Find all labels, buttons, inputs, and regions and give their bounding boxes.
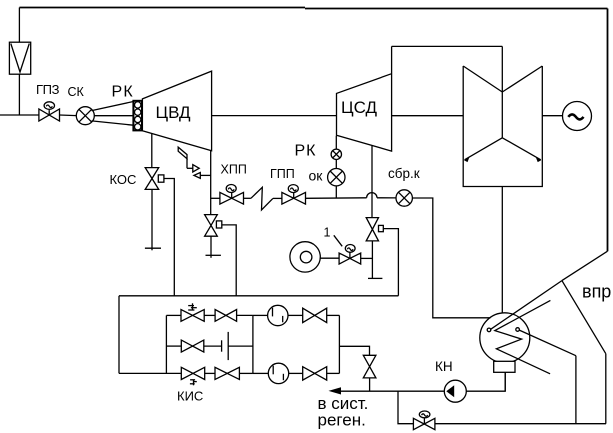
wire: recirculation drop bbox=[398, 391, 413, 424]
wire: below KOS bbox=[151, 189, 153, 250]
wire: boiler to main steam line bbox=[18, 74, 20, 115]
valve row3 second bbox=[215, 367, 239, 379]
wire: below drain valve bbox=[371, 241, 373, 279]
wire: pump to condenser bbox=[466, 372, 505, 391]
valve row2 bbox=[181, 340, 204, 352]
wire: hop to dump valve circle bbox=[377, 197, 396, 199]
turbine HP cylinder TsVD (ЦВД) bbox=[142, 71, 211, 151]
wire: recirculation line to injection risers bbox=[435, 423, 606, 425]
arrow: to regeneration system bbox=[329, 387, 342, 394]
expansion zigzag bbox=[251, 187, 273, 210]
hotwell bbox=[494, 361, 515, 372]
wire: row1 manifold to meter bbox=[253, 314, 268, 316]
orifice (restrictor) row2 bbox=[222, 332, 229, 360]
svg-text:ХПП: ХПП bbox=[221, 163, 247, 177]
wire: SK to RK fan bottom bbox=[92, 121, 134, 125]
label pointer line bbox=[334, 235, 342, 246]
turbine IP cylinder TsSD (ЦСД) bbox=[337, 46, 392, 151]
pump KN (КН) bbox=[444, 380, 466, 402]
svg-text:РК: РК bbox=[295, 143, 317, 160]
wire: SK to RK fan top bbox=[92, 102, 134, 111]
wire: row2 to orifice bbox=[204, 345, 222, 347]
valve 1 bbox=[339, 245, 361, 265]
valve row3 outlet bbox=[303, 367, 327, 380]
wire: hot reheat line to hop bbox=[306, 197, 367, 200]
wire: discharge to condensate line bbox=[369, 378, 371, 391]
wire: GPZ to SK bbox=[60, 114, 77, 117]
wire: TsSD drain vertical bbox=[371, 146, 373, 218]
flow meter row3 bbox=[268, 363, 288, 383]
check valve KOS (КОС) bbox=[145, 168, 164, 190]
wire: injection line to left nozzle bbox=[491, 281, 562, 330]
wire: row3 to mid manifold bbox=[239, 372, 253, 374]
svg-text:ок: ок bbox=[309, 168, 324, 184]
wire: shaft/steam TsVD to TsSD bbox=[212, 115, 337, 117]
svg-text:ГПЗ: ГПЗ bbox=[36, 82, 60, 97]
turbine LP cylinder (double flow) bbox=[463, 66, 542, 187]
wire: gauge to valve 1 bbox=[320, 257, 339, 259]
valve RK of TsSD bbox=[331, 149, 341, 159]
svg-text:1: 1 bbox=[324, 226, 331, 240]
wire: main steam line bbox=[0, 114, 39, 116]
spray nozzle left bbox=[487, 328, 491, 332]
wire: injection line to right nozzle bbox=[519, 330, 576, 356]
ground: KOS drain bbox=[145, 247, 161, 249]
svg-text:ЦСД: ЦСД bbox=[341, 98, 377, 117]
wire: crossover pipe down into LP bbox=[501, 46, 503, 137]
svg-text:КИС: КИС bbox=[177, 389, 203, 404]
wire: top header line left bbox=[19, 7, 305, 9]
wire: row3 manifold to meter bbox=[253, 372, 268, 374]
wire: ROU row3 left feed bbox=[119, 372, 181, 374]
svg-text:СК: СК bbox=[68, 85, 85, 99]
wire: row1 to mid manifold bbox=[237, 314, 253, 316]
wire: crossover pipe top bbox=[392, 45, 503, 47]
wire: ROU mid manifold bbox=[252, 315, 254, 373]
wire: sbr.k to condenser bbox=[412, 198, 490, 318]
wire: valve 1 to drain bbox=[361, 257, 373, 259]
svg-text:ГПП: ГПП bbox=[270, 167, 295, 181]
wire: drain header bbox=[119, 295, 398, 297]
wire: injection riser right bbox=[605, 354, 607, 424]
wire: SK to RK fan middle bbox=[94, 115, 133, 117]
wire: shaft LP to generator bbox=[542, 115, 562, 117]
wire: row1 to right manifold bbox=[327, 314, 340, 316]
wire: branch to KhPP valve bbox=[211, 197, 220, 199]
wire: row1 mid bbox=[204, 314, 215, 316]
wire: header left drop bbox=[118, 296, 120, 374]
wire: meter to valve row1 bbox=[288, 314, 303, 316]
wire: orifice to mid manifold bbox=[228, 345, 253, 347]
wire: row3 to right manifold bbox=[327, 372, 340, 374]
wire: dump zigzag through condenser bbox=[495, 300, 551, 373]
discharge valve (hourglass) bbox=[363, 355, 376, 378]
valve row1 second bbox=[215, 310, 237, 322]
dump valve sbr.k (сбр.к) bbox=[396, 190, 412, 206]
boiler bbox=[9, 42, 30, 74]
wire: shaft TsSD to LP bbox=[392, 115, 464, 117]
control valve block RK (РК) bbox=[133, 101, 142, 131]
wire: meter to valve row3 bbox=[289, 372, 303, 374]
valve KhPP (ХПП) bbox=[220, 185, 244, 205]
svg-text:реген.: реген. bbox=[318, 411, 366, 430]
wire: row1 left bbox=[166, 314, 181, 316]
wire: boiler riser bbox=[18, 8, 20, 43]
svg-text:РК: РК bbox=[112, 84, 134, 101]
wire: check valve bypass to drain header bbox=[222, 225, 236, 296]
ground: reheat drain bbox=[206, 254, 221, 256]
valve SK (СК) stop valve bbox=[76, 107, 94, 125]
valve row3 impulse KIS (КИС) bbox=[181, 367, 204, 385]
spray nozzle right bbox=[516, 328, 520, 332]
wire: OK down to reheat line bbox=[335, 186, 337, 198]
wire: KOS drop from TsVD bbox=[151, 134, 153, 168]
wire: row2 left bbox=[166, 345, 181, 347]
svg-text:сбр.к: сбр.к bbox=[388, 166, 420, 181]
ground: TsSD drain bbox=[368, 277, 382, 279]
wire: ROU right manifold bbox=[338, 315, 340, 373]
wire: RK to OK bbox=[335, 160, 337, 169]
wire: TsSD inlet drop to RK bbox=[335, 136, 337, 149]
flow meter row1 bbox=[268, 305, 288, 325]
valve GPP (ГПП) bbox=[282, 185, 306, 205]
wire: KOS bypass to drain header bbox=[164, 179, 174, 296]
wire: hotwell to pump line bbox=[504, 372, 506, 391]
wire: condensate line bbox=[340, 390, 444, 392]
check valve OK (ОК) bbox=[328, 169, 345, 186]
wire: row3 mid bbox=[205, 372, 215, 374]
valve row1 outlet bbox=[303, 308, 327, 322]
wire: ROU left manifold bbox=[165, 315, 167, 373]
svg-text:впр: впр bbox=[582, 282, 611, 302]
valve GPZ (ГПЗ) bbox=[39, 102, 60, 121]
wire: drain valve bypass to header bbox=[383, 229, 398, 296]
wire: diagonal to injection junction bbox=[562, 251, 608, 280]
recirculation valve bbox=[413, 411, 435, 430]
wire: KhPP valve to expansion bbox=[244, 197, 251, 199]
valve row1 impulse (with spring) bbox=[181, 303, 204, 321]
gauge 1 bbox=[290, 242, 320, 272]
svg-text:ЦВД: ЦВД bbox=[156, 103, 192, 122]
wire: right border down bbox=[607, 9, 609, 252]
svg-text:КОС: КОС bbox=[110, 172, 137, 187]
check valve on cold reheat drop bbox=[205, 215, 222, 237]
wire: injection riser left bbox=[575, 356, 577, 424]
wire: cold reheat drop from TsVD bbox=[210, 151, 212, 215]
wire: manifold to discharge valve bbox=[339, 346, 369, 355]
wire: LP exhaust to condenser bbox=[501, 187, 503, 314]
wire: top header line right bbox=[305, 8, 608, 10]
wire: injection diagonal right bbox=[562, 281, 606, 354]
wire: below check valve bbox=[210, 236, 212, 258]
condenser bbox=[480, 313, 530, 363]
wire: zigzag to GPP valve bbox=[273, 197, 282, 199]
generator G bbox=[563, 102, 592, 131]
wire: hop over drain (crossing) bbox=[367, 193, 377, 198]
svg-text:КН: КН bbox=[435, 359, 453, 374]
drain valve (hourglass) of TsSD bbox=[366, 218, 383, 241]
safety valve symbol on reheat drop bbox=[178, 147, 211, 178]
